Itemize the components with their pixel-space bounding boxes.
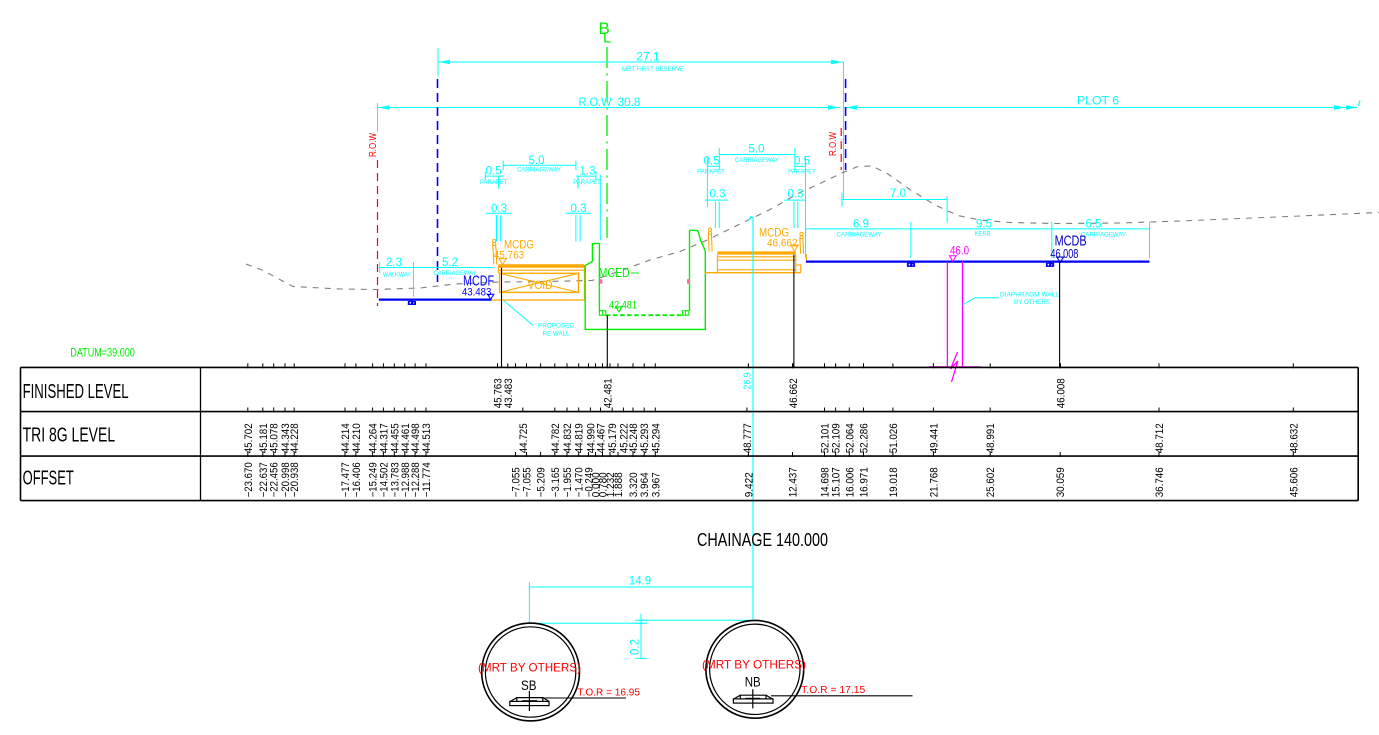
- svg-text:0.5: 0.5: [486, 166, 502, 178]
- svg-text:52.064: 52.064: [844, 423, 856, 453]
- upstand right: [682, 311, 688, 316]
- svg-text:−11.774: −11.774: [421, 462, 433, 497]
- extension verticals right deck: [706, 156, 708, 207]
- svg-text:BY OTHERS: BY OTHERS: [1014, 299, 1050, 306]
- svg-text:42.481: 42.481: [602, 378, 614, 408]
- level table frame: [21, 366, 1359, 368]
- svg-text:25.602: 25.602: [985, 467, 997, 497]
- chainage centerline (cyan): [752, 217, 754, 619]
- svg-text:5.0: 5.0: [529, 155, 545, 167]
- svg-text:5.0: 5.0: [749, 143, 765, 155]
- svg-text:PARAPET: PARAPET: [573, 179, 601, 186]
- svg-text:45.078: 45.078: [269, 423, 281, 453]
- svg-text:44.228: 44.228: [289, 423, 301, 453]
- svg-text:2.3: 2.3: [386, 257, 402, 269]
- svg-text:9.5: 9.5: [976, 219, 992, 231]
- svg-text:51.026: 51.026: [888, 423, 900, 453]
- deck bottom slab: [492, 299, 585, 301]
- parapet left deck: [493, 244, 494, 265]
- svg-text:5.2: 5.2: [442, 257, 458, 269]
- svg-text:MCED: MCED: [599, 266, 630, 280]
- survey marker on walkway: [408, 299, 416, 306]
- svg-text:45.763: 45.763: [494, 249, 525, 261]
- svg-text:36.746: 36.746: [1154, 467, 1166, 497]
- svg-text:7.0: 7.0: [890, 188, 906, 200]
- svg-text:3.320: 3.320: [628, 472, 640, 497]
- svg-text:−16.406: −16.406: [351, 462, 363, 497]
- walkway road line (blue): [379, 299, 492, 301]
- pink joint markers: [600, 279, 603, 284]
- tri 8g level values: [243, 423, 1301, 453]
- svg-text:PROPOSED: PROPOSED: [538, 323, 574, 330]
- grade line verticals: [501, 268, 503, 368]
- svg-text:TRI 8G LEVEL: TRI 8G LEVEL: [23, 425, 116, 447]
- svg-text:44.782: 44.782: [550, 423, 562, 453]
- step right of deck: [796, 265, 801, 273]
- svg-text:48.712: 48.712: [1154, 423, 1166, 453]
- vertical extension at 600: [599, 175, 601, 240]
- SB top line: [528, 587, 530, 623]
- dim R.O.W 30.8: [378, 107, 841, 109]
- R.O.W boundary right (blue dashed): [845, 79, 847, 170]
- svg-text:PARAPET: PARAPET: [697, 169, 725, 176]
- svg-text:0.3: 0.3: [710, 188, 726, 200]
- svg-text:−20.938: −20.938: [289, 462, 301, 497]
- svg-text:0.3: 0.3: [491, 203, 507, 215]
- SB track: [510, 691, 549, 711]
- svg-text:14.9: 14.9: [629, 576, 651, 588]
- svg-text:OFFSET: OFFSET: [23, 468, 74, 490]
- svg-text:21.768: 21.768: [928, 467, 940, 497]
- svg-text:26.9: 26.9: [742, 372, 754, 389]
- svg-text:CARRIAGEWAY: CARRIAGEWAY: [735, 157, 780, 164]
- void box MCDF: [500, 273, 579, 292]
- svg-text:0.3: 0.3: [571, 203, 587, 215]
- svg-text:48.777: 48.777: [742, 423, 754, 453]
- centerline symbol CL: [599, 19, 612, 47]
- svg-text:0.3: 0.3: [788, 188, 804, 200]
- parapet right deck right: [799, 237, 802, 255]
- dim 2.3 WALKWAY: [380, 267, 494, 269]
- svg-text:(MRT BY OTHERS): (MRT BY OTHERS): [478, 660, 581, 674]
- SB TOR line: [541, 697, 626, 699]
- dim 0.3 rd-left: [705, 199, 728, 201]
- leader DIAPHRAGM WALL: [963, 298, 1000, 305]
- tunnel NB: [706, 620, 804, 718]
- dim 0.3 rd-right: [784, 199, 806, 201]
- svg-text:−5.209: −5.209: [536, 467, 548, 497]
- green centerline: [606, 47, 608, 243]
- svg-text:30.059: 30.059: [1055, 467, 1067, 497]
- R.O.W boundary left (blue dashed): [437, 79, 439, 282]
- dims 6.9 / 9.5 / 6.5: [806, 228, 1150, 230]
- NB top line: [639, 619, 753, 621]
- svg-text:6.5: 6.5: [1086, 219, 1102, 231]
- existing ground dashed line: [246, 166, 1379, 290]
- svg-text:−22.456: −22.456: [269, 462, 281, 497]
- svg-text:SB: SB: [521, 678, 537, 693]
- diaphragm wall (magenta): [946, 262, 948, 367]
- svg-text:45.248: 45.248: [628, 423, 640, 453]
- bridge deck MCDG right: [717, 251, 795, 254]
- svg-text:46.008: 46.008: [1050, 247, 1078, 261]
- svg-text:CARRIAGEWAY: CARRIAGEWAY: [837, 232, 883, 239]
- svg-text:12.437: 12.437: [788, 467, 800, 497]
- svg-text:−23.670: −23.670: [243, 462, 255, 497]
- dim 27.1 MRT FIRST RESERVE: [438, 61, 843, 63]
- svg-text:DATUM=39.000: DATUM=39.000: [70, 348, 135, 360]
- svg-text:CHAINAGE 140.000: CHAINAGE 140.000: [697, 530, 828, 550]
- NB track: [733, 689, 773, 708]
- trough floor dashed: [606, 314, 681, 316]
- dim 0.3 left-left: [486, 212, 511, 214]
- svg-text:27.1: 27.1: [636, 50, 660, 64]
- svg-text:PLOT 6: PLOT 6: [1077, 94, 1119, 108]
- survey marker kerb right: [1046, 261, 1054, 267]
- svg-text:52.286: 52.286: [859, 423, 871, 453]
- svg-text:52.109: 52.109: [831, 423, 843, 453]
- MCED trough left wall: [585, 230, 705, 329]
- svg-text:15.107: 15.107: [831, 467, 843, 497]
- svg-text:CARRIAGEWAY: CARRIAGEWAY: [517, 167, 562, 174]
- table tick marks: [248, 363, 1294, 457]
- svg-text:45.294: 45.294: [650, 423, 662, 453]
- upstand left: [599, 311, 605, 316]
- dim 0.5 PARAPET rd-left: [707, 165, 719, 167]
- svg-text:R.O.W: R.O.W: [579, 95, 612, 109]
- svg-text:9.422: 9.422: [743, 472, 755, 497]
- svg-text:30.8: 30.8: [618, 95, 641, 109]
- svg-text:44.467: 44.467: [596, 423, 608, 453]
- svg-text:CARRIAGEWAY: CARRIAGEWAY: [1081, 232, 1127, 239]
- finished level values: [493, 378, 1068, 408]
- dim PLOT 6: [844, 107, 1357, 109]
- svg-text:VOID: VOID: [528, 278, 553, 292]
- svg-text:PARAPET: PARAPET: [788, 169, 816, 176]
- svg-text:48.632: 48.632: [1288, 423, 1300, 453]
- svg-text:R.O.W: R.O.W: [827, 132, 839, 156]
- svg-text:1.888: 1.888: [613, 472, 625, 497]
- dim 1.3 PARAPET: [576, 175, 596, 177]
- dim 0.2: [640, 614, 642, 659]
- svg-text:(MRT BY OTHERS): (MRT BY OTHERS): [702, 658, 806, 672]
- survey marker kerb left: [907, 261, 915, 267]
- offset values: [243, 462, 1301, 497]
- parapet right deck left: [707, 232, 710, 251]
- svg-text:−3.165: −3.165: [550, 467, 562, 497]
- svg-text:DIAPHRAGM WALL: DIAPHRAGM WALL: [1000, 292, 1059, 299]
- svg-text:16.006: 16.006: [844, 467, 856, 497]
- svg-text:44.513: 44.513: [421, 423, 433, 453]
- svg-text:44.725: 44.725: [518, 423, 530, 453]
- svg-text:−7.055: −7.055: [522, 467, 534, 497]
- svg-text:RE WALL: RE WALL: [543, 331, 570, 338]
- svg-text:FINISHED LEVEL: FINISHED LEVEL: [23, 381, 129, 403]
- svg-text:16.971: 16.971: [859, 467, 871, 497]
- svg-text:−1.955: −1.955: [562, 467, 574, 497]
- svg-text:PARAPET: PARAPET: [480, 179, 508, 186]
- tunnel SB: [482, 623, 580, 721]
- svg-text:46.662: 46.662: [788, 378, 800, 408]
- svg-text:44.832: 44.832: [562, 423, 574, 453]
- svg-text:WALKWAY: WALKWAY: [383, 272, 412, 279]
- dim 5.0 CARRIAGEWAY right deck: [719, 154, 795, 156]
- svg-text:43.483: 43.483: [462, 286, 492, 298]
- MCED inner walls: [598, 243, 600, 310]
- dim 0.3 left-right: [566, 212, 591, 214]
- svg-text:46.662: 46.662: [767, 237, 798, 249]
- bridge deck MCDG left: [498, 264, 584, 267]
- svg-text:46.008: 46.008: [1055, 378, 1067, 408]
- svg-text:NB: NB: [745, 675, 761, 690]
- svg-text:0.5: 0.5: [794, 155, 810, 167]
- svg-text:19.018: 19.018: [888, 467, 900, 497]
- road line right (blue): [806, 261, 1150, 263]
- svg-text:49.441: 49.441: [928, 423, 940, 453]
- svg-text:45.179: 45.179: [607, 423, 619, 453]
- svg-text:6.9: 6.9: [853, 219, 869, 231]
- svg-text:1.3: 1.3: [580, 166, 596, 178]
- svg-text:48.991: 48.991: [985, 423, 997, 453]
- dim 7.0: [842, 199, 947, 201]
- svg-text:KERB: KERB: [975, 231, 991, 238]
- dim 14.9: [529, 586, 753, 588]
- svg-text:R.O.W: R.O.W: [367, 133, 379, 157]
- svg-text:45.606: 45.606: [1288, 467, 1300, 497]
- svg-text:42.481: 42.481: [609, 300, 637, 312]
- svg-text:44.210: 44.210: [351, 423, 363, 453]
- dim 0.5 PARAPET rd-right: [795, 165, 806, 167]
- svg-text:43.483: 43.483: [503, 378, 515, 408]
- NB TOR line: [771, 695, 913, 697]
- dim 5.0 CARRIAGEWAY left deck: [503, 164, 576, 166]
- leader PROPOSED RE WALL: [504, 301, 534, 326]
- svg-text:T.O.R = 16.95: T.O.R = 16.95: [578, 687, 641, 698]
- svg-text:0.2: 0.2: [630, 639, 642, 655]
- svg-text:L: L: [603, 30, 611, 47]
- svg-text:MRT FIRST RESERVE: MRT FIRST RESERVE: [622, 66, 685, 73]
- svg-text:45.702: 45.702: [243, 423, 255, 453]
- svg-text:3.967: 3.967: [650, 472, 662, 497]
- svg-text:T.O.R = 17.15: T.O.R = 17.15: [801, 685, 865, 696]
- svg-text:0.5: 0.5: [704, 155, 720, 167]
- svg-text:44.819: 44.819: [574, 423, 586, 453]
- dim 0.5 PARAPET left: [485, 175, 503, 177]
